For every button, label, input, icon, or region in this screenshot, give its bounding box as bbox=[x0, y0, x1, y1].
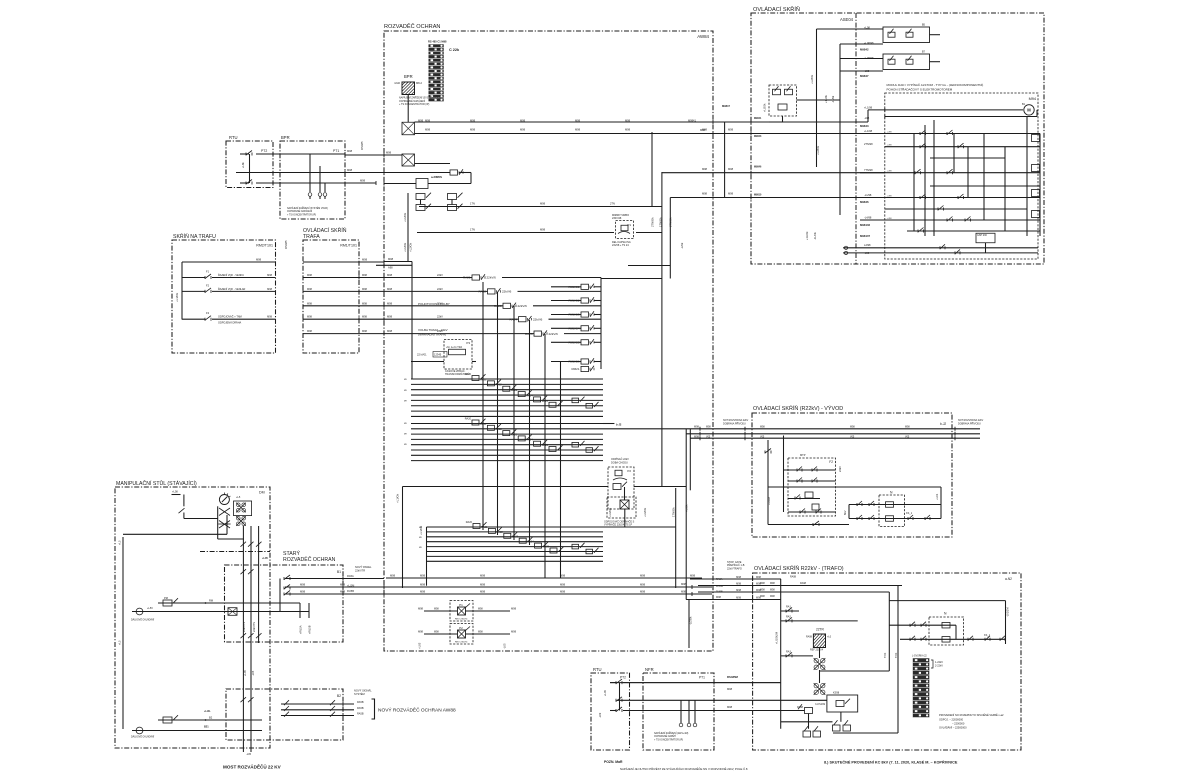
svg-text:+L1/98: +L1/98 bbox=[864, 106, 873, 110]
svg-text:M98: M98 bbox=[690, 574, 696, 578]
svg-text:M98: M98 bbox=[387, 301, 393, 305]
svg-text:L-SVORKA 22: L-SVORKA 22 bbox=[912, 655, 927, 658]
svg-text:M98: M98 bbox=[478, 608, 483, 611]
svg-text:POHON STŘADAČOVÝ S ELEKTROMOTO: POHON STŘADAČOVÝ S ELEKTROMOTOREM bbox=[887, 87, 953, 92]
svg-text:M98: M98 bbox=[362, 316, 367, 319]
svg-text:M98: M98 bbox=[850, 426, 855, 429]
svg-text:M98: M98 bbox=[727, 687, 733, 691]
svg-text:RTU: RTU bbox=[229, 135, 238, 140]
svg-text:REO 230V/4: REO 230V/4 bbox=[455, 642, 468, 644]
svg-text:M98: M98 bbox=[511, 630, 517, 634]
svg-text:8.) SKUTEČNÉ PROVEDENÍ KC 8kV: 8.) SKUTEČNÉ PROVEDENÍ KC 8kV (7. 11. 20… bbox=[824, 760, 958, 765]
svg-text:M9847: M9847 bbox=[722, 104, 730, 108]
svg-text:M98102: M98102 bbox=[860, 223, 871, 227]
svg-text:NAPÁJENÍ ZAŘÍZENÍ (SYSTÉM VOLB: NAPÁJENÍ ZAŘÍZENÍ (SYSTÉM VOLB) bbox=[287, 207, 328, 210]
svg-text:VOLBA TRAFA - 22kV: VOLBA TRAFA - 22kV bbox=[418, 328, 448, 332]
svg-text:PM: PM bbox=[164, 596, 168, 600]
svg-text:22kV: 22kV bbox=[437, 273, 443, 277]
svg-text:RM21: RM21 bbox=[571, 367, 579, 371]
svg-text:RA20: RA20 bbox=[466, 521, 473, 524]
svg-text:M98: M98 bbox=[362, 302, 367, 305]
svg-text:+RU5B: +RU5B bbox=[308, 625, 312, 634]
svg-text:2TN/Ok: 2TN/Ok bbox=[669, 217, 673, 227]
svg-text:M98: M98 bbox=[362, 330, 367, 333]
svg-text:B21: B21 bbox=[204, 726, 209, 729]
svg-text:22kV/6: 22kV/6 bbox=[518, 304, 528, 308]
svg-text:NAPÁJENÍ JE NUTNO PŘIVÉST ZE S: NAPÁJENÍ JE NUTNO PŘIVÉST ZE STÁVAJÍCÍHO… bbox=[620, 766, 748, 771]
svg-text:V05: V05 bbox=[706, 436, 711, 439]
svg-text:P2: P2 bbox=[459, 626, 463, 630]
svg-text:MODUL DAD / VYPÍNAČ ALSTOM - T: MODUL DAD / VYPÍNAČ ALSTOM - TYP GL - (J… bbox=[887, 82, 984, 87]
svg-text:+L2/Ok: +L2/Ok bbox=[810, 74, 814, 84]
svg-text:-L05: -L05 bbox=[246, 753, 252, 756]
svg-text:+L0: +L0 bbox=[827, 636, 832, 639]
svg-text:GSH 230: GSH 230 bbox=[977, 234, 988, 237]
svg-text:22kV/TR: 22kV/TR bbox=[355, 568, 365, 572]
svg-text:M98: M98 bbox=[434, 631, 439, 634]
svg-text:22 kV01: 22 kV01 bbox=[417, 353, 427, 357]
svg-text:+L1/Ok: +L1/Ok bbox=[396, 493, 400, 503]
svg-text:M98: M98 bbox=[425, 119, 431, 123]
svg-text:M98: M98 bbox=[756, 576, 761, 579]
svg-text:M98: M98 bbox=[307, 288, 312, 291]
svg-text:M98: M98 bbox=[425, 128, 431, 132]
svg-text:RM2/C5: RM2/C5 bbox=[568, 341, 579, 345]
svg-text:M98: M98 bbox=[575, 119, 581, 123]
svg-text:RTU: RTU bbox=[593, 667, 602, 672]
svg-text:2TN/98: 2TN/98 bbox=[864, 142, 873, 146]
svg-text:RA21: RA21 bbox=[480, 423, 487, 426]
svg-text:RA21: RA21 bbox=[481, 526, 488, 529]
svg-text:M98: M98 bbox=[728, 128, 734, 132]
svg-text:M98: M98 bbox=[307, 274, 312, 277]
svg-text:+L98/98: +L98/98 bbox=[864, 56, 874, 60]
svg-text:M98: M98 bbox=[560, 574, 566, 578]
svg-text:-L4/98: -L4/98 bbox=[864, 216, 872, 220]
svg-text:DÁLKOVÉ OVLÁDÁNÍ: DÁLKOVÉ OVLÁDÁNÍ bbox=[131, 736, 154, 739]
svg-text:M98: M98 bbox=[267, 316, 272, 319]
svg-text:RA20: RA20 bbox=[465, 418, 472, 421]
svg-text:22kV/6: 22kV/6 bbox=[533, 317, 543, 321]
svg-text:-L98: -L98 bbox=[864, 69, 870, 73]
svg-text:NOVÝ SIGNÁL: NOVÝ SIGNÁL bbox=[354, 689, 372, 693]
svg-text:22kV: 22kV bbox=[437, 301, 443, 305]
svg-text:V05: V05 bbox=[760, 436, 765, 439]
svg-text:+L2/Ok: +L2/Ok bbox=[409, 242, 413, 252]
svg-text:RS485: RS485 bbox=[284, 240, 288, 249]
svg-text:22kV/6: 22kV/6 bbox=[502, 290, 512, 294]
svg-text:b-KS169: b-KS169 bbox=[815, 703, 825, 706]
svg-text:M: M bbox=[1027, 108, 1031, 113]
svg-text:M98: M98 bbox=[560, 590, 566, 594]
svg-text:M9841: M9841 bbox=[688, 119, 696, 123]
svg-text:M98: M98 bbox=[300, 583, 306, 587]
svg-text:+L98: +L98 bbox=[887, 131, 893, 133]
svg-text:OCHRANNÉ NAPÁJENÍ: OCHRANNÉ NAPÁJENÍ bbox=[287, 210, 312, 213]
svg-text:A98: A98 bbox=[388, 266, 393, 270]
svg-text:-L/2Ok: -L/2Ok bbox=[689, 616, 693, 625]
svg-text:+ TS KONCENTRÁTOR (IP): + TS KONCENTRÁTOR (IP) bbox=[287, 213, 316, 216]
svg-text:M94: M94 bbox=[1029, 97, 1036, 101]
svg-text:-L98: -L98 bbox=[864, 251, 870, 255]
svg-text:OVLÁDÁNÍ – 22500000: OVLÁDÁNÍ – 22500000 bbox=[939, 726, 967, 730]
svg-text:M98: M98 bbox=[760, 589, 765, 592]
svg-text:ODPOJOVAČ + TNM: ODPOJOVAČ + TNM bbox=[218, 316, 242, 319]
svg-text:M98: M98 bbox=[625, 128, 631, 132]
svg-text:OVLÁDACÍ SKŘÍŇ (R22kV) - VÝVOD: OVLÁDACÍ SKŘÍŇ (R22kV) - VÝVOD bbox=[753, 404, 843, 412]
svg-text:ASE04: ASE04 bbox=[840, 17, 854, 22]
svg-text:POZN. MaR: POZN. MaR bbox=[604, 760, 623, 764]
svg-text:RA98: RA98 bbox=[800, 582, 807, 585]
svg-text:RA21: RA21 bbox=[463, 276, 471, 280]
svg-text:M98: M98 bbox=[770, 589, 775, 592]
svg-text:RM2/C6: RM2/C6 bbox=[568, 360, 579, 364]
svg-text:M98: M98 bbox=[575, 128, 581, 132]
svg-text:M98: M98 bbox=[387, 315, 393, 319]
svg-text:+L5K: +L5K bbox=[172, 490, 178, 494]
svg-text:M98: M98 bbox=[480, 590, 486, 594]
svg-text:MTP: MTP bbox=[800, 453, 806, 457]
svg-text:+RU5A: +RU5A bbox=[299, 625, 303, 634]
svg-text:M98: M98 bbox=[716, 596, 721, 599]
svg-text:RA22: RA22 bbox=[496, 384, 503, 387]
svg-text:M98: M98 bbox=[760, 426, 765, 429]
svg-text:+L5V: +L5V bbox=[147, 607, 153, 610]
svg-text:RS485: RS485 bbox=[360, 141, 364, 150]
svg-text:+L98: +L98 bbox=[887, 218, 893, 220]
svg-text:+L01: +L01 bbox=[935, 493, 939, 500]
svg-text:RA3: RA3 bbox=[786, 651, 791, 654]
svg-text:M98: M98 bbox=[702, 128, 708, 132]
svg-text:230V/48: 230V/48 bbox=[612, 217, 622, 220]
svg-text:22kV: 22kV bbox=[437, 287, 443, 291]
svg-text:22TR: 22TR bbox=[816, 628, 824, 632]
svg-text:M98: M98 bbox=[470, 119, 476, 123]
svg-text:M98: M98 bbox=[418, 630, 424, 634]
svg-text:M8-2: M8-2 bbox=[416, 81, 422, 85]
svg-text:B7: B7 bbox=[922, 50, 926, 54]
svg-text:+L/2L: +L/2L bbox=[204, 710, 211, 713]
svg-text:RM1/T101: RM1/T101 bbox=[340, 244, 357, 248]
svg-text:RA5B: RA5B bbox=[357, 707, 364, 710]
svg-text:+L05: +L05 bbox=[262, 557, 268, 560]
svg-text:-L/9k: -L/9k bbox=[680, 242, 684, 249]
svg-text:RA24: RA24 bbox=[527, 541, 534, 544]
svg-text:OVLÁDACÍ SKŘÍŇ R22kV - (TRAFO): OVLÁDACÍ SKŘÍŇ R22kV - (TRAFO) bbox=[754, 564, 844, 572]
svg-text:RA5B: RA5B bbox=[357, 713, 364, 716]
svg-text:+L5: +L5 bbox=[118, 540, 122, 545]
svg-text:M98: M98 bbox=[347, 168, 353, 172]
svg-text:PT2: PT2 bbox=[261, 149, 267, 153]
svg-text:-L09: -L09 bbox=[598, 712, 602, 718]
svg-text:M98: M98 bbox=[360, 179, 366, 183]
svg-text:RA5A: RA5A bbox=[347, 574, 354, 578]
svg-text:RA1: RA1 bbox=[786, 606, 791, 609]
svg-text:M98: M98 bbox=[434, 608, 439, 611]
svg-text:+L8k: +L8k bbox=[241, 162, 245, 168]
svg-text:M98: M98 bbox=[728, 167, 734, 171]
svg-text:B2: B2 bbox=[209, 716, 213, 720]
svg-text:ŘAZENÍ VQK - VENKU: ŘAZENÍ VQK - VENKU bbox=[218, 274, 244, 277]
svg-text:b-J2: b-J2 bbox=[616, 423, 622, 427]
svg-text:M98: M98 bbox=[540, 202, 546, 206]
svg-text:M98: M98 bbox=[480, 583, 486, 587]
svg-text:+ TS KONCENTRÁTOR (IP): + TS KONCENTRÁTOR (IP) bbox=[654, 738, 683, 741]
svg-text:VYPÍNAČE 230/24+TS 1P: VYPÍNAČE 230/24+TS 1P bbox=[604, 524, 633, 527]
svg-text:+L98: +L98 bbox=[887, 195, 893, 197]
svg-text:KS_1: KS_1 bbox=[906, 512, 913, 515]
svg-text:M9842: M9842 bbox=[860, 48, 869, 52]
svg-text:REF 230V/4: REF 230V/4 bbox=[810, 649, 824, 652]
svg-text:TNS: TNS bbox=[883, 653, 887, 658]
svg-text:+L5: +L5 bbox=[236, 496, 241, 499]
svg-text:M98: M98 bbox=[728, 192, 734, 196]
svg-text:2-22kV: 2-22kV bbox=[935, 664, 943, 667]
svg-text:M98: M98 bbox=[736, 583, 741, 586]
svg-text:M98: M98 bbox=[387, 273, 393, 277]
svg-text:-L1/98: -L1/98 bbox=[864, 193, 872, 197]
svg-text:RA98: RA98 bbox=[790, 576, 797, 579]
svg-text:RA2: RA2 bbox=[786, 616, 791, 619]
svg-text:NFR: NFR bbox=[645, 667, 654, 672]
svg-text:OVLÁDACÍ SKŘÍŇ: OVLÁDACÍ SKŘÍŇ bbox=[303, 226, 347, 234]
svg-text:1TN: 1TN bbox=[470, 228, 475, 232]
svg-text:RM: RM bbox=[209, 599, 213, 603]
svg-text:+L98: +L98 bbox=[864, 26, 870, 30]
svg-text:NOVÝ PANEL: NOVÝ PANEL bbox=[355, 565, 372, 569]
svg-text:BPR: BPR bbox=[404, 74, 413, 79]
svg-text:B1: B1 bbox=[337, 570, 341, 574]
svg-text:B2: B2 bbox=[337, 694, 341, 698]
svg-text:M9843: M9843 bbox=[754, 135, 762, 138]
svg-text:RM2/T101: RM2/T101 bbox=[256, 244, 273, 248]
svg-text:M98: M98 bbox=[640, 583, 646, 587]
svg-text:M9846: M9846 bbox=[754, 165, 762, 168]
svg-text:M98: M98 bbox=[694, 426, 699, 429]
svg-text:M98: M98 bbox=[702, 167, 708, 171]
svg-text:M98: M98 bbox=[736, 576, 741, 579]
svg-text:+L98: +L98 bbox=[887, 145, 893, 147]
svg-text:OCHRANNÉ NAPĚTÍ: OCHRANNÉ NAPĚTÍ bbox=[654, 735, 676, 738]
svg-text:2TN: 2TN bbox=[610, 202, 615, 206]
svg-text:RS485M: RS485M bbox=[727, 675, 739, 679]
svg-text:+L1/Ok: +L1/Ok bbox=[175, 292, 179, 302]
svg-text:M98: M98 bbox=[420, 574, 426, 578]
svg-text:KS_1: KS_1 bbox=[984, 634, 991, 637]
svg-text:22kV/6: 22kV/6 bbox=[549, 332, 559, 336]
svg-text:TNS: TNS bbox=[894, 653, 898, 658]
svg-text:+L98/98: +L98/98 bbox=[864, 41, 874, 45]
svg-text:M98: M98 bbox=[418, 119, 424, 123]
svg-text:P3: P3 bbox=[466, 341, 470, 345]
svg-text:M98: M98 bbox=[362, 288, 367, 291]
svg-text:-L05: -L05 bbox=[503, 643, 507, 649]
svg-text:+L09: +L09 bbox=[603, 690, 607, 696]
svg-text:M98: M98 bbox=[347, 149, 353, 153]
svg-text:+L/1Ok2M: +L/1Ok2M bbox=[775, 632, 779, 644]
svg-text:DOBRAVA PŘÍVODU: DOBRAVA PŘÍVODU bbox=[723, 422, 746, 425]
svg-text:M98: M98 bbox=[387, 287, 393, 291]
svg-text:+L/2Ok: +L/2Ok bbox=[763, 103, 767, 112]
svg-text:6kV: 6kV bbox=[843, 510, 847, 515]
svg-text:7TN/98: 7TN/98 bbox=[864, 168, 873, 172]
svg-text:1TN/Ok: 1TN/Ok bbox=[672, 507, 676, 517]
svg-text:+L1/Ok: +L1/Ok bbox=[403, 242, 407, 252]
svg-text:M98: M98 bbox=[307, 330, 312, 333]
svg-text:M98: M98 bbox=[520, 128, 526, 132]
svg-text:M98: M98 bbox=[511, 607, 517, 611]
svg-text:M98: M98 bbox=[307, 302, 312, 305]
svg-text:M9841: M9841 bbox=[754, 117, 762, 120]
svg-text:BPR: BPR bbox=[281, 135, 290, 140]
svg-text:STARÝ: STARÝ bbox=[283, 550, 300, 557]
svg-text:POHOTOVOST VOLBY: POHOTOVOST VOLBY bbox=[418, 302, 450, 306]
svg-text:+L/1M: +L/1M bbox=[767, 496, 771, 505]
svg-text:+ TS KONCENTRÁTOR (IP): + TS KONCENTRÁTOR (IP) bbox=[399, 103, 429, 106]
svg-text:KS98: KS98 bbox=[833, 692, 840, 695]
svg-text:ROZVADĚČ OCHRAN: ROZVADĚČ OCHRAN bbox=[283, 555, 336, 563]
svg-text:+L/2Ok: +L/2Ok bbox=[643, 507, 647, 517]
svg-text:22kV/TN: 22kV/TN bbox=[242, 622, 246, 632]
svg-text:M98: M98 bbox=[560, 583, 566, 587]
svg-text:RA5B: RA5B bbox=[357, 701, 364, 704]
svg-text:RM2/C4: RM2/C4 bbox=[568, 327, 579, 331]
svg-text:24V08 + TS 24: 24V08 + TS 24 bbox=[612, 244, 629, 247]
svg-text:DÁLKOVÉ OVLÁDÁNÍ: DÁLKOVÉ OVLÁDÁNÍ bbox=[131, 619, 154, 622]
svg-text:M98: M98 bbox=[480, 574, 486, 578]
svg-text:+L/2Ok: +L/2Ok bbox=[608, 507, 612, 517]
svg-text:M98: M98 bbox=[770, 582, 775, 585]
svg-text:M98: M98 bbox=[420, 590, 426, 594]
svg-text:RA22: RA22 bbox=[478, 290, 486, 294]
svg-text:M9843: M9843 bbox=[860, 124, 869, 128]
svg-text:M98: M98 bbox=[702, 192, 708, 196]
svg-text:M98: M98 bbox=[736, 597, 741, 600]
svg-text:M98: M98 bbox=[420, 583, 426, 587]
svg-text:+L05: +L05 bbox=[418, 642, 422, 649]
svg-text:M98: M98 bbox=[387, 329, 393, 333]
svg-text:M98: M98 bbox=[640, 590, 646, 594]
svg-text:M9846: M9846 bbox=[860, 200, 869, 204]
svg-text:RA22: RA22 bbox=[496, 428, 503, 431]
svg-text:22kV/TRAFO: 22kV/TRAFO bbox=[727, 567, 742, 570]
svg-text:ROZVADĚČ OCHRAN: ROZVADĚČ OCHRAN bbox=[384, 22, 440, 30]
svg-text:PT2: PT2 bbox=[620, 676, 626, 680]
svg-text:P2: P2 bbox=[627, 469, 631, 473]
svg-text:M98107: M98107 bbox=[860, 234, 871, 238]
svg-text:NAPÁJENÍ ZAŘÍZENÍ (22kV+1M): NAPÁJENÍ ZAŘÍZENÍ (22kV+1M) bbox=[654, 732, 689, 735]
svg-text:DOBRAVA PŘÍVODU: DOBRAVA PŘÍVODU bbox=[958, 422, 981, 425]
svg-text:2TN/Ok: 2TN/Ok bbox=[651, 217, 655, 227]
svg-text:-L01/2M: -L01/2M bbox=[1006, 607, 1010, 617]
svg-text:+L/2M: +L/2M bbox=[347, 584, 354, 588]
svg-text:+L05: +L05 bbox=[243, 670, 247, 676]
svg-text:22kV: 22kV bbox=[437, 315, 443, 319]
svg-text:MANIPULAČNÍ STŮL (STÁVAJÍCÍ): MANIPULAČNÍ STŮL (STÁVAJÍCÍ) bbox=[116, 480, 197, 487]
svg-text:M98: M98 bbox=[418, 607, 424, 611]
svg-text:RA25: RA25 bbox=[543, 546, 550, 549]
svg-text:+1L/Ok: +1L/Ok bbox=[805, 231, 809, 240]
svg-text:M98: M98 bbox=[388, 257, 394, 261]
svg-text:M98: M98 bbox=[362, 258, 368, 262]
svg-text:22kV/6: 22kV/6 bbox=[487, 276, 497, 280]
svg-text:ŘAZENÍ VQK - VENLAR: ŘAZENÍ VQK - VENLAR bbox=[218, 288, 246, 291]
svg-text:M98: M98 bbox=[307, 316, 312, 319]
svg-text:M98: M98 bbox=[520, 119, 526, 123]
svg-text:M98: M98 bbox=[256, 258, 262, 262]
svg-text:OVLÁDACÍ SKŘÍŇ: OVLÁDACÍ SKŘÍŇ bbox=[753, 5, 800, 13]
svg-text:RA20: RA20 bbox=[465, 373, 472, 376]
svg-text:M98: M98 bbox=[390, 574, 396, 578]
svg-text:M98: M98 bbox=[640, 574, 646, 578]
svg-text:-1L/9k: -1L/9k bbox=[831, 95, 835, 103]
svg-text:M98: M98 bbox=[694, 436, 699, 439]
svg-text:+L5: +L5 bbox=[118, 640, 122, 645]
svg-text:M98: M98 bbox=[760, 582, 765, 585]
svg-text:M98: M98 bbox=[736, 589, 741, 592]
svg-text:V05: V05 bbox=[905, 436, 910, 439]
svg-text:22kV: 22kV bbox=[838, 466, 842, 472]
svg-text:22kV/TN: 22kV/TN bbox=[252, 622, 256, 632]
svg-text:RA98: RA98 bbox=[797, 706, 804, 709]
svg-text:M98: M98 bbox=[300, 590, 306, 594]
svg-text:ODPOJENÁ DRÁHA: ODPOJENÁ DRÁHA bbox=[218, 322, 242, 325]
svg-text:RA25: RA25 bbox=[525, 332, 533, 336]
svg-text:SKŘÍŇ NA TRAFU: SKŘÍŇ NA TRAFU bbox=[173, 232, 216, 240]
svg-text:M98: M98 bbox=[905, 426, 910, 429]
svg-text:M9810: M9810 bbox=[754, 193, 762, 196]
svg-text:M98: M98 bbox=[706, 426, 711, 429]
svg-text:– 2200000: – 2200000 bbox=[952, 722, 965, 726]
svg-text:12345: 12345 bbox=[434, 353, 442, 357]
svg-text:RU5B: RU5B bbox=[347, 589, 354, 593]
svg-text:C 22k: C 22k bbox=[449, 48, 460, 52]
svg-text:1TN/Ok: 1TN/Ok bbox=[659, 217, 663, 227]
svg-text:22kV: 22kV bbox=[437, 329, 443, 333]
svg-text:b-J2: b-J2 bbox=[940, 422, 946, 426]
svg-text:-1L/Ok: -1L/Ok bbox=[813, 232, 817, 240]
svg-text:DOBA CHODU: DOBA CHODU bbox=[611, 462, 628, 465]
svg-text:B5: B5 bbox=[922, 23, 926, 27]
svg-text:M98: M98 bbox=[770, 595, 775, 598]
svg-text:1TN: 1TN bbox=[470, 202, 475, 206]
svg-text:M98: M98 bbox=[727, 705, 733, 709]
svg-text:V05: V05 bbox=[850, 436, 855, 439]
svg-text:M98: M98 bbox=[540, 228, 546, 232]
svg-text:a-RM5S: a-RM5S bbox=[431, 175, 442, 179]
svg-text:4-M2: 4-M2 bbox=[394, 81, 400, 85]
svg-text:M98: M98 bbox=[340, 583, 346, 587]
svg-text:ODPOJ. – 22000000: ODPOJ. – 22000000 bbox=[939, 718, 964, 722]
svg-text:RS 485 C1 M98: RS 485 C1 M98 bbox=[428, 40, 447, 44]
svg-text:M98: M98 bbox=[267, 274, 272, 277]
svg-text:a-N2: a-N2 bbox=[1005, 577, 1012, 581]
svg-text:+L1/98: +L1/98 bbox=[864, 129, 873, 133]
svg-text:-L05: -L05 bbox=[251, 670, 255, 676]
svg-text:RA24: RA24 bbox=[509, 317, 517, 321]
svg-text:M98: M98 bbox=[470, 128, 476, 132]
svg-text:AW84: AW84 bbox=[697, 34, 709, 39]
svg-text:RM2/C1: RM2/C1 bbox=[568, 285, 579, 289]
svg-text:M9847: M9847 bbox=[860, 74, 869, 78]
svg-text:M98: M98 bbox=[267, 288, 272, 291]
svg-text:+L98: +L98 bbox=[887, 171, 893, 173]
svg-text:TRAFA: TRAFA bbox=[303, 234, 320, 240]
svg-text:P1: P1 bbox=[459, 603, 463, 607]
svg-text:RA98: RA98 bbox=[806, 636, 813, 639]
svg-text:-L98: -L98 bbox=[864, 116, 870, 120]
svg-text:RM2/C2: RM2/C2 bbox=[568, 299, 579, 303]
